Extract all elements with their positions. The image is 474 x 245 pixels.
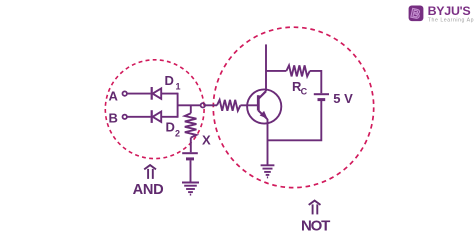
svg-text:C: C [301,87,308,97]
diode D1 [152,87,162,100]
input terminal A [123,91,127,95]
wire emitter vertical to ground [267,119,269,165]
svg-text:NOT: NOT [301,218,330,235]
dashed circle AND group [105,60,204,159]
dashed circle NOT group [213,27,373,187]
wire resistor to transistor base [240,104,257,106]
wire RC to battery [310,71,322,93]
resistor RC (horizontal zigzag) [286,65,309,76]
wire resistor X stub [190,105,192,113]
svg-text:X: X [202,133,211,148]
transistor emitter diagonal [258,111,267,120]
ground right [261,165,275,177]
transistor Q1 circle [247,89,281,123]
svg-text:1: 1 [176,81,181,91]
battery left long plate [182,152,198,154]
wire node X to base resistor [205,104,217,106]
svg-text:5 V: 5 V [333,91,353,106]
arrow up AND [144,165,156,179]
resistor X (vertical zigzag) [185,113,197,137]
wire A to D1 [127,93,151,95]
wire battery to ground left [190,160,192,182]
diode D2 [152,110,162,123]
transistor base bar [257,95,260,110]
svg-text:The Learning App: The Learning App [428,17,474,23]
battery left short plate [186,157,194,160]
arrow up NOT [309,201,321,215]
svg-text:B: B [109,110,118,125]
svg-text:D: D [166,120,175,135]
resistor base (horizontal zigzag) [217,100,240,111]
BYJU'S logo [409,4,474,23]
wire bus vertical [177,93,179,118]
wire B to D2 [127,116,151,118]
node X circle [201,103,205,107]
svg-text:2: 2 [175,129,180,139]
svg-text:D: D [165,73,174,88]
battery 5V long plate [314,93,329,95]
wire battery down and left to emitter [268,101,322,140]
transistor collector diagonal [258,91,266,99]
wire bus to node X [178,104,201,106]
wire resistor to battery [190,138,192,153]
emitter arrowhead [261,112,267,118]
input terminal B [123,115,127,119]
ground left [182,183,199,195]
svg-text:BYJU'S: BYJU'S [428,4,471,18]
wire collector vertical [265,44,267,91]
wire D1 to bus [161,93,177,95]
wire D2 to bus [161,116,177,118]
wire collector branch to RC [266,70,286,72]
svg-text:AND: AND [133,182,164,198]
battery 5V short plate [318,98,326,101]
svg-text:A: A [109,89,119,104]
